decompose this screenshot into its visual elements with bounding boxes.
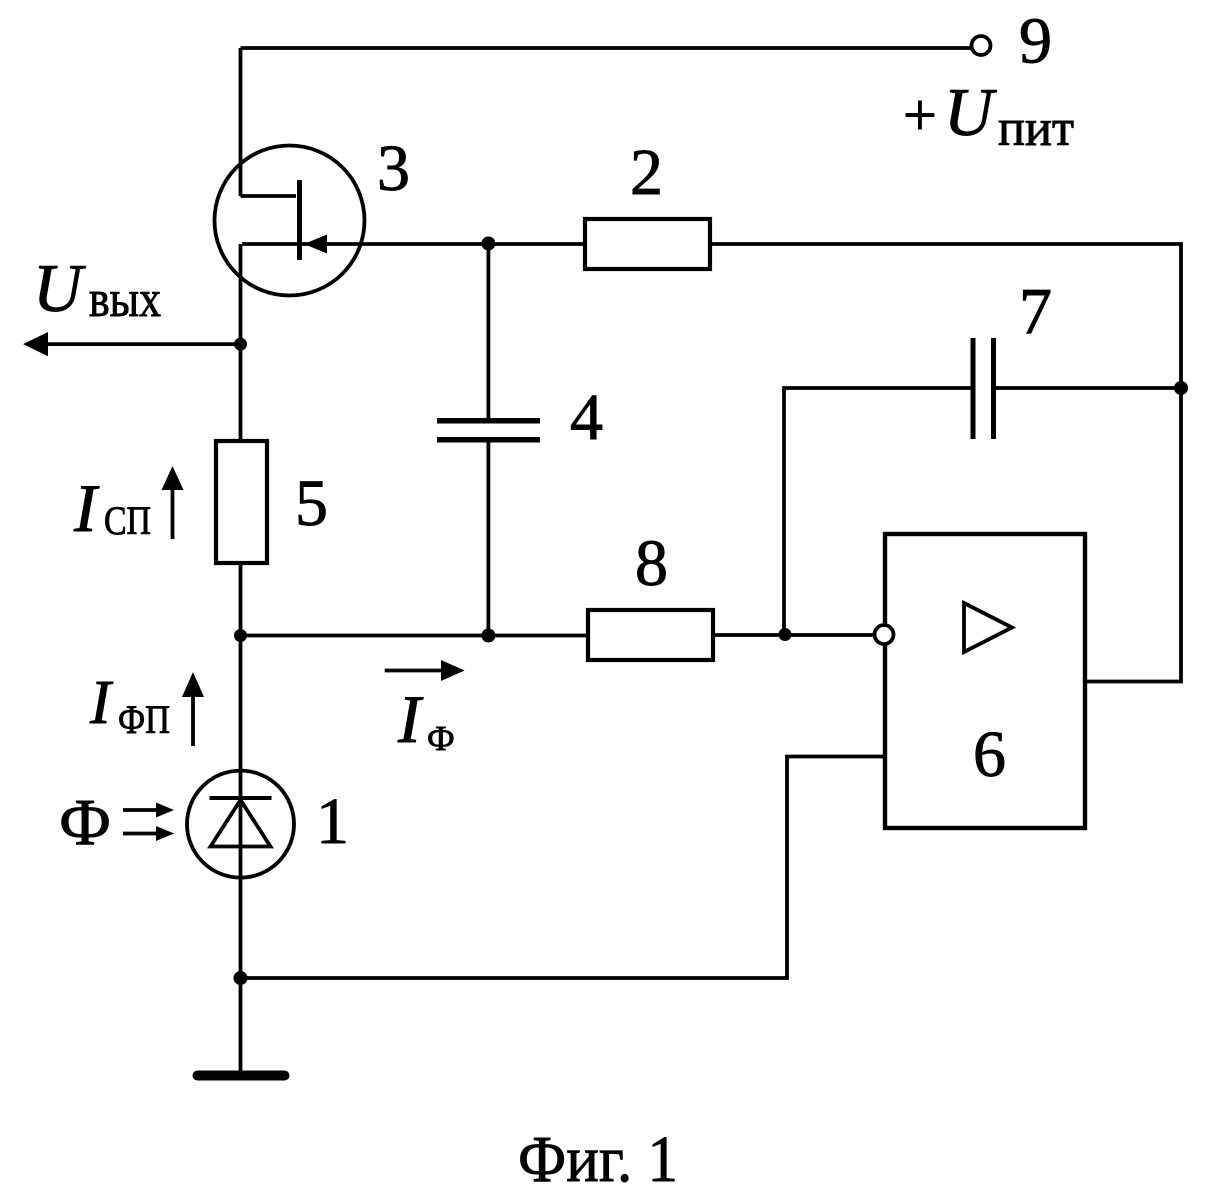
wire top supply rail	[241, 46, 973, 50]
op-amp input circle	[875, 625, 894, 644]
svg-text:2: 2	[630, 136, 663, 209]
label I_FP	[89, 669, 170, 742]
wire resistor8 to op-amp input	[713, 633, 874, 637]
svg-text:I: I	[73, 470, 100, 546]
svg-text:9: 9	[1019, 5, 1052, 78]
resistor R8	[588, 610, 713, 660]
wire node to resistor 8	[241, 634, 589, 638]
node input junction dot	[779, 628, 792, 641]
node dot right rail cap7	[1174, 381, 1188, 395]
capacitor C4 plates	[437, 421, 540, 440]
transistor channel bar	[297, 180, 302, 260]
wire cap4 vertical lower	[486, 442, 490, 636]
transistor gate lead	[241, 194, 297, 198]
label I_F	[397, 681, 455, 758]
label U_vyx	[33, 250, 161, 328]
svg-text:СП: СП	[104, 498, 151, 543]
svg-text:4: 4	[570, 381, 603, 454]
photodiode triangle	[211, 800, 271, 847]
svg-text:вых: вых	[89, 271, 161, 328]
svg-text:U: U	[33, 250, 86, 326]
svg-text:Фиг. 1: Фиг. 1	[518, 1123, 678, 1196]
wire cap4 vertical upper	[486, 244, 490, 419]
svg-text:Ф: Ф	[427, 719, 455, 758]
svg-text:6: 6	[973, 718, 1006, 791]
label +U_pit	[903, 74, 1074, 157]
Uvyx arrowhead	[23, 332, 48, 356]
ground	[198, 1071, 285, 1081]
label I_SP	[73, 470, 151, 546]
wire cap7 horizontal right	[996, 386, 1181, 390]
capacitor C7 plates	[973, 338, 994, 439]
node dot left main at y635	[234, 629, 247, 642]
resistor R2	[585, 219, 710, 269]
flux arrow lower	[123, 832, 158, 836]
svg-text:I: I	[89, 669, 114, 737]
wire transistor source to resistor 2	[242, 242, 585, 246]
svg-text:1: 1	[316, 785, 349, 858]
node dot cap4 bottom	[481, 629, 495, 643]
Uvyx arrow wire	[46, 342, 239, 346]
svg-text:Ф: Ф	[59, 786, 111, 859]
svg-text:пит: пит	[998, 100, 1074, 157]
svg-text:3: 3	[377, 132, 410, 205]
node Uvyx dot	[234, 338, 247, 351]
svg-text:+: +	[903, 82, 937, 148]
flux arrow upper	[123, 808, 158, 812]
photodiode D1 circle	[187, 771, 294, 878]
transistor U3 circle	[215, 146, 365, 296]
node junction dot at cap4 top	[481, 237, 495, 251]
svg-text:7: 7	[1019, 275, 1052, 348]
node dot bottom left	[234, 971, 248, 985]
photodiode cathode bar	[210, 796, 272, 800]
op-amp U6 box	[885, 534, 1085, 828]
wire resistor2 to right rail, down, op-amp output	[710, 244, 1181, 682]
arrow I_FP	[191, 696, 195, 746]
wire cap7 horizontal left and down to input node	[784, 388, 971, 635]
wire left vertical main branch	[239, 244, 243, 1071]
svg-text:5: 5	[295, 467, 328, 540]
arrow I_SP	[171, 488, 175, 539]
arrow I_F	[385, 669, 443, 673]
svg-text:U: U	[944, 74, 997, 150]
resistor R5	[216, 441, 267, 563]
terminal 9 (open circle)	[972, 36, 991, 55]
wire left vertical from top rail to transistor gate lead	[239, 48, 243, 196]
op-amp triangle	[964, 603, 1012, 652]
svg-text:ФП: ФП	[118, 697, 170, 742]
svg-text:I: I	[397, 681, 424, 757]
wire op-amp lower input to bottom rail	[241, 757, 886, 979]
svg-text:8: 8	[635, 527, 668, 600]
transistor arrowhead	[304, 235, 327, 254]
